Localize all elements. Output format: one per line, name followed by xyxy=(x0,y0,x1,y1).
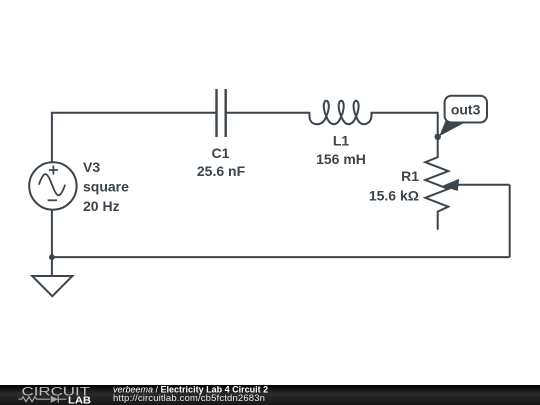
svg-text:20 Hz: 20 Hz xyxy=(83,198,120,214)
V3 minus sign xyxy=(48,199,57,201)
wire C1 to L1 xyxy=(226,112,306,114)
wire bottom horizontal xyxy=(52,256,510,258)
svg-text:156 mH: 156 mH xyxy=(316,151,366,167)
R1 wiper arrowhead xyxy=(441,179,459,191)
svg-text:V3: V3 xyxy=(83,159,100,175)
node out3 junction dot xyxy=(435,134,441,140)
wire V3 bottom to junction xyxy=(51,210,53,257)
R1 wiper wire xyxy=(453,184,510,186)
V3 plus sign xyxy=(49,166,58,175)
svg-text:square: square xyxy=(83,179,129,195)
resistor R1 (potentiometer body) xyxy=(425,137,448,230)
flag out3 box xyxy=(445,96,487,123)
wire V3 top vertical xyxy=(51,113,53,162)
svg-text:LAB: LAB xyxy=(68,396,91,405)
inductor L1 xyxy=(305,101,376,124)
capacitor C1 xyxy=(217,89,226,137)
junction dot ground node xyxy=(49,254,55,260)
svg-text:out3: out3 xyxy=(451,102,481,118)
wire top horizontal to C1 xyxy=(51,112,217,114)
voltage source V3 circle xyxy=(29,162,76,209)
svg-text:http://circuitlab.com/cb5fctdn: http://circuitlab.com/cb5fctdn2683n xyxy=(113,393,265,404)
logo wire squiggle xyxy=(19,396,67,403)
svg-text:15.6 kΩ: 15.6 kΩ xyxy=(369,187,419,203)
V3 sine wave xyxy=(39,174,65,195)
flag out3 pointer xyxy=(439,121,463,137)
wire right vertical xyxy=(509,185,511,257)
wire junction to ground xyxy=(51,257,53,276)
logo diode triangle xyxy=(51,396,59,403)
ground symbol xyxy=(32,276,72,296)
svg-text:R1: R1 xyxy=(401,168,419,184)
svg-text:25.6 nF: 25.6 nF xyxy=(197,163,246,179)
svg-text:L1: L1 xyxy=(333,133,350,149)
wire L1 to corner and down to node xyxy=(376,113,438,137)
svg-text:C1: C1 xyxy=(212,145,230,161)
